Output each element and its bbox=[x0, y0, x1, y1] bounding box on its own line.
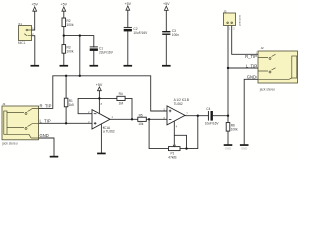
power +5V (C3) bbox=[164, 6, 168, 10]
svg-text:100n: 100n bbox=[172, 33, 179, 37]
wire mic pin2 to ground bbox=[32, 36, 35, 65]
wire R6 to ground bbox=[227, 131, 229, 144]
svg-text:C4: C4 bbox=[206, 107, 210, 111]
svg-text:10uF/16V: 10uF/16V bbox=[133, 31, 148, 35]
wire op-amp A pin 4 to ground bbox=[100, 125, 102, 153]
ground (C1) bbox=[90, 65, 99, 67]
wire J3 pin1 down to output node bbox=[227, 26, 229, 116]
wire C3 to ground bbox=[165, 35, 167, 65]
wire +5V to op-amp A pin 8 bbox=[98, 91, 100, 114]
wire J3 pin2 to J2 pin1 bbox=[232, 26, 258, 55]
svg-text:R4: R4 bbox=[119, 92, 123, 96]
potentiometer P1 bbox=[169, 147, 181, 151]
wire J1 pin3 GND to ground bbox=[39, 138, 55, 156]
svg-text:GND: GND bbox=[247, 74, 256, 79]
wire op-amp A output to R5 bbox=[110, 118, 138, 120]
wire R2 to R3 through node bbox=[63, 27, 65, 45]
resistor R1 bbox=[64, 98, 68, 107]
svg-text:TL062: TL062 bbox=[174, 102, 183, 106]
wire +5V to C2 bbox=[127, 10, 129, 27]
power +5V (divider) bbox=[62, 7, 66, 11]
wire op-amp B pin4 / wiper bbox=[173, 121, 175, 145]
svg-text:1M: 1M bbox=[119, 102, 124, 106]
wire J1 pin2 to op-amp A + input bbox=[39, 122, 93, 124]
resistor R3 bbox=[62, 45, 66, 54]
op-amp U1B bbox=[167, 106, 185, 125]
ground (C3) bbox=[162, 65, 171, 67]
svg-text:jack stereo: jack stereo bbox=[259, 88, 276, 92]
svg-text:J2: J2 bbox=[261, 46, 265, 50]
wire op-amp A feedback to R4 bbox=[78, 98, 117, 113]
svg-text:1k5: 1k5 bbox=[69, 103, 74, 107]
power +5V (C2) bbox=[126, 6, 130, 10]
power +5V (mic) bbox=[33, 7, 37, 11]
capacitor C3 bbox=[162, 31, 170, 32]
capacitor C4 bbox=[207, 111, 209, 121]
wire bus to R1 bbox=[65, 76, 67, 98]
wire R1 to input line bbox=[65, 107, 67, 124]
svg-text:snd card: snd card bbox=[238, 15, 242, 26]
node junction dots bbox=[63, 34, 65, 36]
resistor R5 bbox=[138, 117, 147, 121]
wire mic pin1 to +5V bbox=[32, 11, 35, 30]
svg-text:X1: X1 bbox=[18, 22, 22, 26]
svg-text:jack stereo: jack stereo bbox=[1, 142, 18, 146]
svg-text:+5V: +5V bbox=[96, 83, 103, 87]
svg-text:GND: GND bbox=[241, 146, 247, 150]
resistor R4 bbox=[117, 96, 125, 100]
wire R5 to op-amp B - input bbox=[146, 118, 167, 120]
svg-text:R_TIP: R_TIP bbox=[245, 54, 257, 59]
connector J3 bbox=[224, 13, 236, 26]
connector J2 jack stereo bbox=[258, 51, 298, 83]
resistor R6 bbox=[226, 123, 230, 132]
svg-text:J1: J1 bbox=[2, 102, 5, 106]
ground (C2) bbox=[124, 65, 133, 67]
wire node VREF to C1 bbox=[64, 36, 94, 47]
svg-text:10uF/16V: 10uF/16V bbox=[205, 122, 220, 126]
capacitor C1 bbox=[90, 46, 98, 48]
wire +5V to C3 bbox=[165, 10, 167, 31]
wire R4 to output node bbox=[125, 98, 132, 119]
connector J1 jack stereo bbox=[2, 106, 39, 140]
ground (divider) bbox=[60, 65, 69, 67]
svg-text:100k: 100k bbox=[231, 128, 238, 132]
svg-text:+5V: +5V bbox=[125, 2, 132, 6]
ground (mic) bbox=[31, 65, 40, 67]
svg-text:100k: 100k bbox=[67, 23, 74, 27]
svg-text:R5: R5 bbox=[139, 114, 143, 118]
svg-text:+5V: +5V bbox=[61, 3, 68, 7]
svg-text:R_TIP: R_TIP bbox=[40, 103, 52, 108]
wire C4 to output node bbox=[213, 115, 228, 117]
svg-text:GND: GND bbox=[40, 133, 49, 138]
svg-text:22uF/16V: 22uF/16V bbox=[99, 50, 114, 54]
wire J2 pin3 GND to ground bbox=[244, 79, 258, 144]
svg-text:J3: J3 bbox=[223, 10, 227, 14]
wire output node to J2 pin2 bbox=[228, 67, 258, 69]
resistor R2 bbox=[62, 18, 66, 27]
wire R3 to ground bbox=[63, 53, 65, 65]
svg-text:100k: 100k bbox=[67, 49, 74, 53]
wire +5V to R2 bbox=[63, 11, 65, 18]
svg-text:L_TIP: L_TIP bbox=[40, 118, 51, 123]
svg-text:MIC1: MIC1 bbox=[18, 41, 26, 45]
wire VREF bus to op-amp B + input bbox=[53, 76, 167, 111]
wire P1 right to op-amp B output node bbox=[180, 116, 198, 149]
wire output node to R6 bbox=[227, 116, 229, 123]
connector MIC X1 bbox=[19, 26, 32, 41]
ground (op-amp A pin4) bbox=[97, 153, 106, 155]
wire jack J1 pin1 to bus bbox=[39, 76, 53, 109]
wire C2 to ground bbox=[127, 31, 129, 65]
ground (R6) bbox=[224, 144, 233, 146]
svg-text:10k: 10k bbox=[138, 122, 144, 126]
wire C1 to ground bbox=[93, 51, 95, 65]
power +5V (op-amp A) bbox=[98, 87, 102, 91]
svg-text:+5V: +5V bbox=[31, 3, 38, 7]
svg-text:+5V: +5V bbox=[163, 2, 170, 6]
wire node VREF down to bus bbox=[79, 36, 81, 76]
wire wiper loop to P1 right bbox=[174, 135, 186, 148]
op-amp U1A bbox=[92, 110, 110, 129]
svg-text:47k/B: 47k/B bbox=[168, 156, 176, 160]
capacitor C2 bbox=[124, 26, 132, 28]
ground (J1) bbox=[50, 156, 59, 158]
svg-text:a TL062: a TL062 bbox=[103, 129, 115, 133]
svg-text:GND: GND bbox=[225, 146, 231, 150]
wire feedback tap to P1 left bbox=[149, 119, 168, 148]
wire op-amp B output to C4 bbox=[185, 115, 208, 117]
ground (J2) bbox=[240, 144, 249, 146]
